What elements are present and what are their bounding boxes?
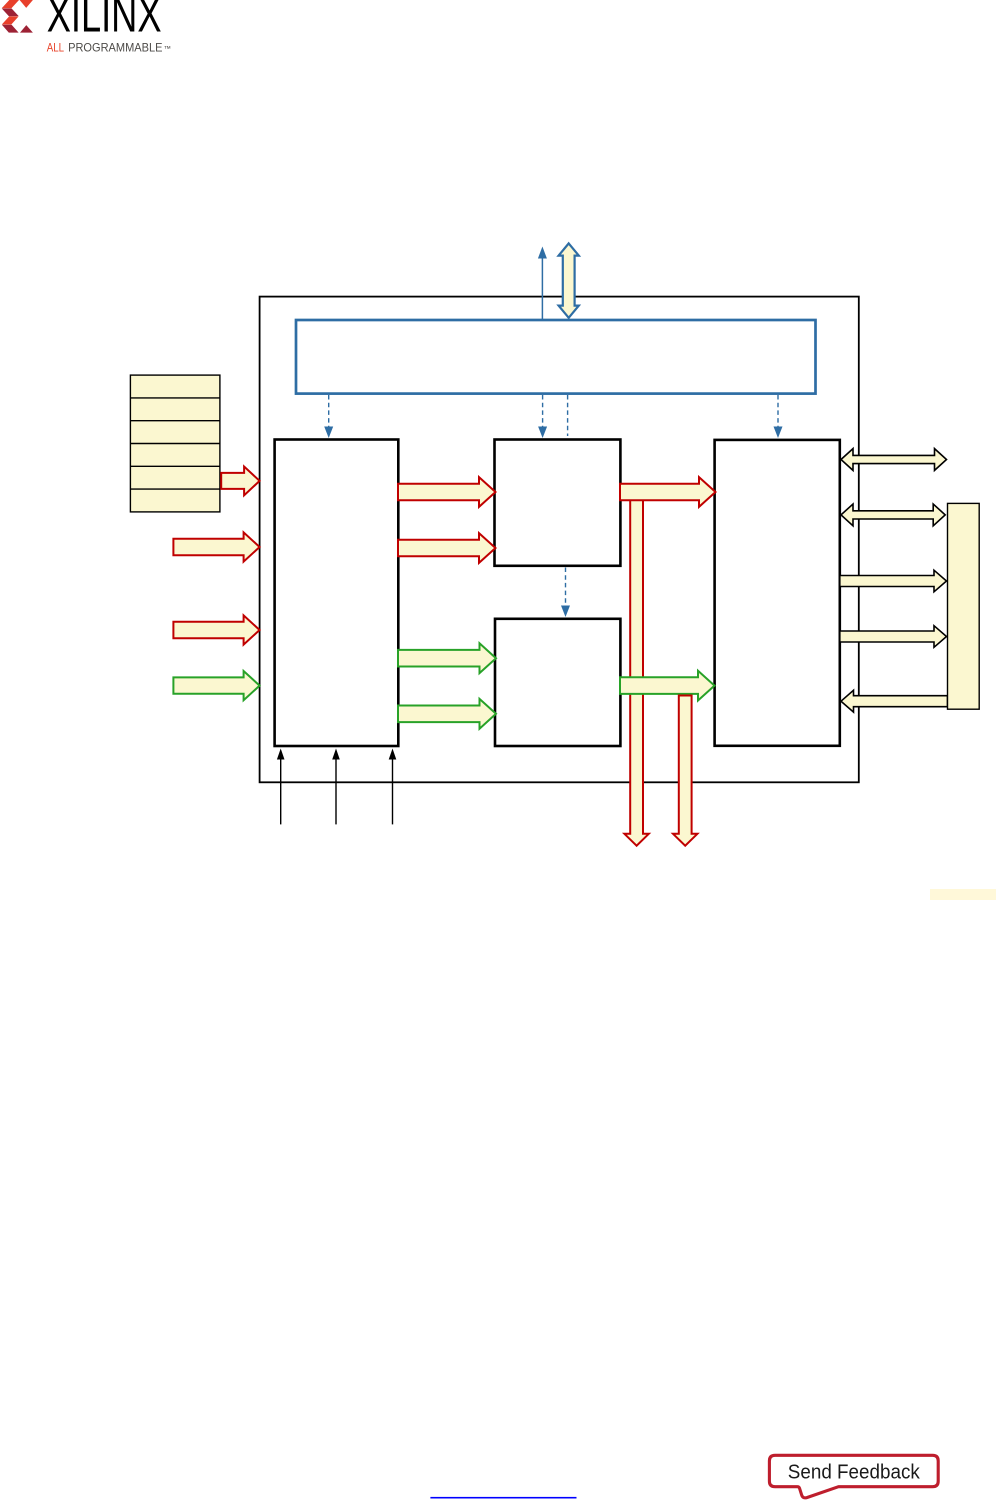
block C (bottom middle) xyxy=(495,619,620,746)
green input arrow xyxy=(173,671,259,700)
dashed arrow bus to block D xyxy=(774,395,783,438)
Send Feedback button xyxy=(769,1455,938,1498)
thin black up arrow 1 xyxy=(277,749,285,825)
Xilinx logo emblem xyxy=(2,0,33,33)
green arrow C to D xyxy=(620,671,715,701)
svg-text:XILINX: XILINX xyxy=(47,0,162,43)
red arrow B to D xyxy=(620,477,716,507)
green arrow A to C upper xyxy=(398,643,496,673)
thin black up arrow 3 xyxy=(389,749,397,825)
left input stack (cream rows) xyxy=(130,375,220,512)
red arrow A to B upper xyxy=(398,477,496,507)
dashed arrow bus to block B xyxy=(538,395,547,438)
vertical drop arrow 1 (from red bus line down) xyxy=(624,500,648,846)
dashed arrow block B to block C xyxy=(561,568,570,618)
block B (top middle) xyxy=(495,440,621,566)
thin blue up arrow xyxy=(538,247,547,321)
right cream rectangle xyxy=(948,503,980,709)
svg-text:ALL: ALL xyxy=(47,41,65,55)
ALL PROGRAMMABLE tagline xyxy=(47,41,171,55)
right output arrow 3 xyxy=(840,570,947,592)
vertical drop arrow 2 (from green line down) xyxy=(673,696,697,846)
hyperlink underline xyxy=(430,1497,576,1499)
red input arrow 3 xyxy=(173,615,259,644)
thin black up arrow 2 xyxy=(332,749,340,825)
double-headed block arrow (top) xyxy=(559,243,579,317)
red arrow A to B lower xyxy=(398,533,496,563)
right input arrow 5 (left pointing) xyxy=(841,690,948,712)
right bidirectional arrow 1 xyxy=(841,449,947,471)
block D (right) xyxy=(715,440,840,746)
block A (left) xyxy=(275,440,399,747)
red arrow stack to boundary xyxy=(221,467,259,496)
dashed line bus toward block C (hidden behind B) xyxy=(567,395,569,436)
svg-text:™: ™ xyxy=(164,44,171,53)
dashed arrow bus to block A xyxy=(324,395,333,438)
yellow highlight xyxy=(930,889,996,900)
outer boundary box xyxy=(260,297,859,783)
red input arrow 2 xyxy=(173,532,259,561)
green arrow A to C lower xyxy=(398,699,496,729)
svg-text:PROGRAMMABLE: PROGRAMMABLE xyxy=(68,41,163,55)
right output arrow 4 xyxy=(840,626,947,648)
svg-text:Send Feedback: Send Feedback xyxy=(788,1462,921,1484)
right bidirectional arrow 2 xyxy=(841,504,945,526)
bus rectangle (blue) xyxy=(296,320,816,394)
